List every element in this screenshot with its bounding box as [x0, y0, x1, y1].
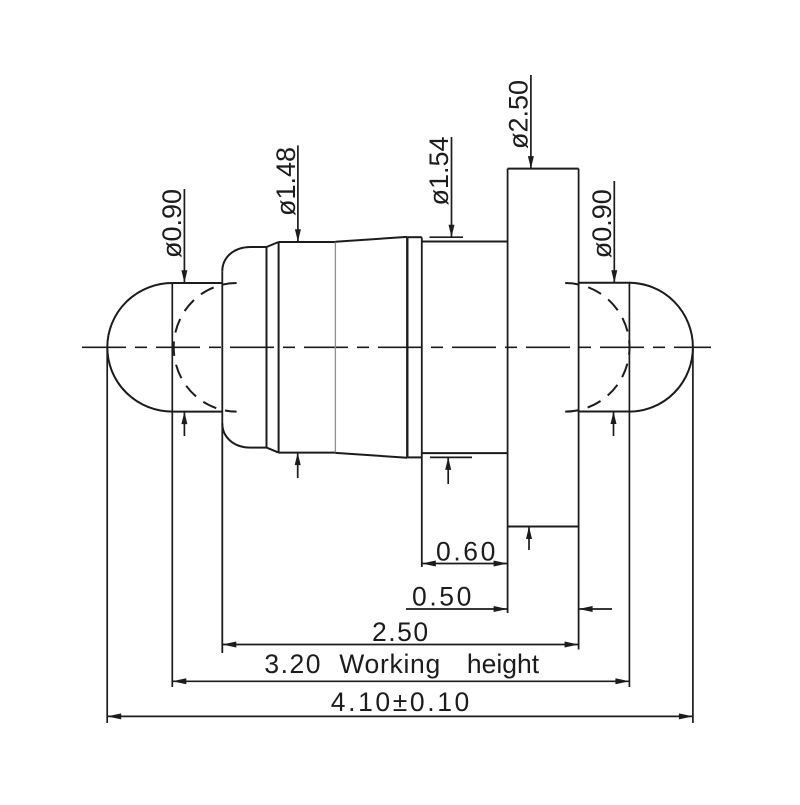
- arrow 3.20 left: [172, 678, 186, 684]
- dia 0.90 left leader bottom: [183, 412, 185, 436]
- dia 0.90 right leader bottom: [613, 412, 615, 437]
- arrow dia1.48 bottom: [295, 453, 301, 466]
- barrel mid line: [334, 242, 336, 453]
- 3.20 dimension line: [172, 680, 629, 682]
- barrel taper top: [335, 237, 407, 242]
- barrel taper bottom: [335, 453, 407, 458]
- svg-text:0.50: 0.50: [412, 582, 474, 612]
- svg-text:Working: Working: [339, 649, 441, 679]
- flange right face / 2.50 extension: [578, 169, 580, 650]
- right tip bottom line: [579, 411, 630, 413]
- right plunger dome arc: [629, 283, 693, 412]
- crown bottom line: [251, 447, 267, 449]
- right tip top line: [579, 282, 630, 284]
- arrow dia0.90R bottom: [611, 412, 617, 425]
- arrow 0.60 left: [422, 561, 436, 567]
- svg-text:2.50: 2.50: [372, 617, 430, 647]
- svg-text:ø1.54: ø1.54: [424, 136, 454, 205]
- arrow 3.20 right: [615, 678, 629, 684]
- 0.50 dimension line left part: [406, 608, 508, 610]
- 4.10 right extension: [692, 349, 694, 723]
- barrel left face: [278, 242, 280, 453]
- left tip bottom line: [172, 411, 222, 413]
- left tip top line: [172, 282, 222, 284]
- arrow dia1.54 bottom: [445, 457, 451, 470]
- bottom chamfer: [267, 448, 279, 453]
- dia 0.90 right leader top: [613, 181, 615, 283]
- arrow 4.10 left: [107, 713, 121, 719]
- arrow 2.50 right: [565, 642, 579, 648]
- svg-text:ø2.50: ø2.50: [504, 80, 534, 149]
- ring top line: [407, 236, 422, 238]
- 4.10 left extension: [106, 349, 108, 723]
- dia 1.54 top landing pad: [430, 236, 464, 238]
- arrow dia0.90R top: [611, 270, 617, 283]
- svg-text:ø0.90: ø0.90: [587, 189, 617, 258]
- left ball dashed arc: [174, 283, 237, 412]
- barrel top line: [279, 241, 336, 243]
- right tip diameter line / 3.20 extension: [628, 283, 630, 687]
- top chamfer: [267, 242, 279, 247]
- ring bottom line: [407, 456, 422, 458]
- 0.60 dimension line: [422, 563, 508, 565]
- right ball dashed arc: [565, 283, 629, 412]
- svg-text:0.60: 0.60: [436, 537, 498, 567]
- arrow dia1.54 top: [449, 225, 455, 238]
- crown top fillet: [222, 247, 251, 271]
- arrow 2.50 left: [222, 642, 236, 648]
- crown top line: [251, 246, 267, 248]
- svg-text:ø1.48: ø1.48: [271, 147, 301, 216]
- arrow dia1.48 top: [295, 229, 301, 242]
- svg-text:ø0.90: ø0.90: [157, 189, 187, 258]
- crown bottom fillet: [222, 423, 251, 447]
- ring right step / 0.60 extension: [421, 237, 423, 567]
- left plunger dome arc: [107, 283, 172, 412]
- dia 1.48 leader top: [297, 145, 299, 241]
- flange bottom line: [508, 526, 579, 528]
- crown left face / 2.50 extension: [221, 271, 223, 653]
- svg-text:height: height: [467, 649, 540, 679]
- flange top line: [508, 168, 579, 170]
- dia 2.50 leader bottom: [528, 527, 530, 551]
- barrel bottom line: [279, 452, 336, 454]
- dia 1.54 leader top: [451, 137, 453, 237]
- tail top line: [422, 241, 508, 243]
- arrow 0.50 right: [579, 606, 593, 612]
- 2.50 dimension line: [222, 644, 578, 646]
- arrow dia0.90L top: [181, 270, 187, 283]
- dia 1.54 bottom landing pad: [430, 456, 472, 458]
- tail bottom line: [422, 452, 508, 454]
- dia 1.54 leader bottom: [447, 457, 449, 484]
- arrow dia2.50 top: [528, 156, 534, 169]
- svg-text:4.10±0.10: 4.10±0.10: [331, 687, 472, 717]
- arrow 0.60 right: [494, 561, 508, 567]
- dia 0.90 left leader top: [183, 189, 185, 283]
- arrow 4.10 right: [679, 713, 693, 719]
- 0.50 dimension line right stub: [579, 608, 612, 610]
- svg-text:3.20: 3.20: [264, 649, 322, 679]
- arrow dia2.50 bottom: [526, 527, 532, 540]
- ring left face: [406, 237, 408, 457]
- flange left face / 0.50 extension: [507, 169, 509, 613]
- dia 2.50 leader top: [530, 75, 532, 169]
- centerline: [82, 346, 711, 348]
- arrow dia0.90L bottom: [181, 412, 187, 425]
- left tip diameter line / 3.20 extension: [171, 283, 173, 687]
- dia 1.48 leader bottom: [297, 453, 299, 478]
- 4.10 dimension line: [107, 715, 693, 717]
- crown right face: [266, 247, 268, 448]
- arrow 0.50 left: [494, 606, 508, 612]
